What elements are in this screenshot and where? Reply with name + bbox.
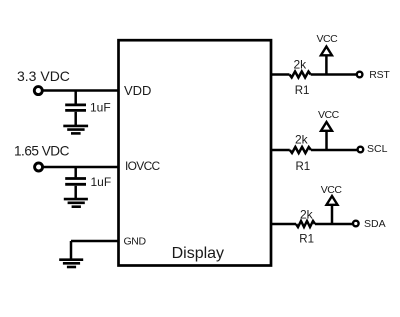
svg-text:1.65 VDC: 1.65 VDC [14, 144, 70, 159]
svg-text:1uF: 1uF [90, 101, 111, 115]
svg-text:R1: R1 [299, 233, 314, 245]
svg-text:VCC: VCC [318, 109, 340, 121]
svg-text:VCC: VCC [321, 184, 343, 196]
svg-text:VCC: VCC [317, 33, 339, 45]
svg-text:3.3 VDC: 3.3 VDC [17, 68, 70, 84]
svg-text:2k: 2k [294, 58, 308, 72]
svg-text:SDA: SDA [364, 218, 386, 230]
svg-text:IOVCC: IOVCC [125, 159, 161, 173]
svg-text:VDD: VDD [124, 83, 151, 98]
svg-text:2k: 2k [295, 133, 309, 147]
svg-text:Display: Display [172, 245, 224, 262]
svg-text:R1: R1 [296, 161, 311, 173]
svg-text:1uF: 1uF [91, 175, 112, 189]
svg-text:2k: 2k [300, 208, 314, 222]
svg-text:R1: R1 [295, 85, 310, 97]
svg-text:RST: RST [369, 69, 390, 81]
svg-text:SCL: SCL [367, 143, 388, 155]
svg-text:GND: GND [124, 236, 147, 248]
